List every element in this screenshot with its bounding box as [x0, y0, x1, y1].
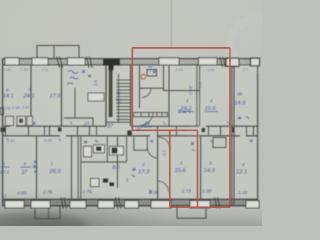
double wall lower line1 [77, 136, 79, 200]
porch right [177, 207, 206, 219]
canopy inner divider [53, 46, 55, 59]
fixtures upper-left apt box [88, 93, 104, 101]
blue ticks spine row [6, 122, 253, 143]
corridor cell left 2 [17, 116, 26, 125]
hatch ticks bottom wall 1 [61, 198, 67, 209]
paper grain noise [0, 0, 262, 226]
window bottom 6 [151, 201, 171, 208]
spine dark mark 1 [58, 128, 62, 132]
fixtures lower-mid box3 dark [112, 148, 118, 154]
red highlight bottom edge [170, 206, 230, 208]
right exterior wall [257, 59, 259, 206]
partition wall upper A [30, 65, 32, 126]
corridor spine lower line [3, 135, 258, 137]
porch left [35, 207, 60, 219]
room label upper room2 underline [205, 111, 219, 113]
red highlight polygon top edge [132, 47, 230, 49]
hatch ticks bottom wall 2 [116, 198, 122, 209]
check marks lower left [34, 161, 38, 174]
room label lower-left 0 line [1, 166, 10, 168]
corridor spine upper line [3, 125, 258, 127]
kitchen unit box lower-mid [91, 179, 100, 187]
bottom scan shadow [0, 150, 262, 226]
red highlight inner right vertical [197, 130, 199, 207]
window bottom 2 [31, 201, 50, 208]
fixtures lower-mid wc dark [96, 147, 102, 152]
corridor cross stub 1 [5, 126, 7, 136]
bathroom wall lower mid A [106, 136, 108, 162]
fixtures lower-mid tub [84, 146, 92, 157]
bathtub upper red apt [147, 70, 157, 77]
window bottom 5 [125, 201, 139, 208]
double wall upper C line2 [199, 65, 201, 126]
corridor cross stub 8 [253, 126, 255, 136]
staircase thick left wall [109, 68, 113, 117]
left side notch [0, 108, 4, 115]
canopy outline (top-left stair entrance) [37, 46, 79, 59]
fixtures right lower box [213, 138, 226, 148]
window top 1 [5, 58, 19, 65]
x marks red apt hall [178, 110, 191, 113]
kitchen squiggle 1 [67, 71, 78, 85]
vent block stub [109, 66, 114, 71]
window top 2 [32, 58, 48, 65]
watermark band [186, 70, 221, 141]
double wall upper C line1 [196, 65, 198, 126]
door arc hall red apt [140, 113, 153, 126]
kitchen squiggle 2 [82, 70, 91, 77]
spine stub extra 4 [208, 126, 210, 136]
staircase left wall [105, 65, 107, 126]
watermark arc [231, 19, 281, 69]
hall wall left apt [64, 118, 93, 126]
bathroom left wall red apt [139, 65, 141, 108]
corridor left end dark blob [1, 128, 7, 133]
corridor cross stub 7 [220, 126, 222, 136]
room1 left wall red apt [168, 65, 170, 126]
window bottom 1 [5, 201, 24, 208]
spine dark mark 3 [232, 128, 235, 133]
paper light wash [0, 0, 262, 226]
window top 6 [226, 58, 239, 66]
partition wall lower E [200, 136, 202, 200]
window top 5 [199, 58, 218, 65]
window bottom 4 [98, 201, 114, 208]
partition wall lower A [36, 136, 38, 200]
partition wall lower B [71, 136, 73, 200]
building interior lighter wash [3, 59, 257, 206]
corridor cell mark 1 [19, 119, 23, 124]
hatch ticks top wall 1 [57, 57, 63, 68]
window top 4 [159, 58, 179, 65]
corridor cell left 1 [6, 116, 14, 125]
hall wall horizontal red apt [164, 90, 200, 92]
gas stove mark 2 [110, 183, 115, 187]
closet band ticks [141, 113, 162, 117]
staircase right wall [130, 65, 132, 126]
check marks mid [33, 165, 36, 168]
porch left divider [48, 207, 50, 219]
top wall band fill [3, 59, 258, 65]
bath marks red apt [148, 67, 156, 74]
bottom-left dark blur blob [0, 213, 88, 237]
corridor cross stub 3 [49, 126, 51, 136]
hatch ticks top wall 2 [87, 57, 93, 68]
hall label 4.9 underline [144, 126, 153, 128]
marks below spine 1 [84, 140, 98, 143]
double wall lower line2 [80, 136, 82, 200]
corridor cross stub 5 [89, 126, 91, 136]
top-left corner lift [0, 0, 95, 58]
staircase landing edge [106, 121, 131, 123]
party wall line2 [233, 59, 235, 206]
bottom wall band fill [3, 199, 258, 205]
window bottom 7 [190, 201, 210, 208]
paper background [0, 0, 262, 226]
bathroom bottom wall lower mid [81, 161, 127, 163]
spine dark mark 2 [202, 128, 206, 132]
garbage chute dark box [127, 130, 132, 135]
partition wall upper B [61, 65, 63, 126]
bottom exterior wall inner line [3, 198, 258, 200]
staircase center stringer [118, 74, 120, 123]
bathroom wall lower mid B [126, 136, 128, 162]
fixtures lower-mid box3 [110, 146, 124, 155]
room label lower-left 1 line [21, 166, 32, 168]
window bottom 8 [246, 201, 259, 208]
marks lower red apt [132, 168, 152, 193]
door arc lower hall [158, 137, 170, 149]
red highlight left edge [131, 48, 133, 130]
window bottom 3 [70, 201, 86, 208]
window top 7 [251, 58, 260, 66]
window top 3 [68, 58, 86, 65]
door arc lower red room [158, 181, 169, 192]
hatch ticks bottom wall 3 [215, 198, 221, 209]
spine stub extra 3 [176, 126, 178, 136]
left exterior wall [2, 59, 4, 206]
bottom edge shade [0, 206, 262, 226]
marks right section [238, 116, 249, 119]
partition wall lower D [157, 136, 159, 200]
top margin lift [0, 0, 262, 46]
bottom exterior wall outer line [3, 205, 258, 207]
top exterior wall outer line [3, 58, 258, 60]
red highlight right edge [229, 48, 231, 207]
bathroom bottom wall red apt [140, 87, 164, 89]
top exterior wall inner line [3, 64, 258, 66]
party wall line1 [231, 59, 233, 206]
red highlight inner left vertical [169, 130, 171, 207]
x mark lower red room2 [191, 142, 195, 151]
fixtures lower-mid sink [94, 145, 105, 153]
spine stub extra 5 [246, 126, 248, 136]
partition wall lower C [117, 136, 119, 188]
staircase treads [116, 80, 130, 120]
corridor cross stub 2 [28, 126, 30, 136]
hatch ticks top wall 3 [220, 57, 226, 67]
room label red apt room1 underline [181, 111, 195, 113]
closet lower red apt [134, 136, 148, 150]
corridor cross stub 6 [157, 126, 159, 136]
bathroom right wall red apt [163, 65, 165, 91]
gas stove marks lower [103, 179, 108, 183]
paper fold line [170, 0, 172, 48]
door arc bathroom red apt [142, 88, 151, 97]
kitchen wall upper-left apt [74, 88, 76, 119]
spine stub extra 1 [44, 126, 46, 136]
corridor cell left 3 [27, 116, 33, 125]
closet band red apt hall [134, 113, 168, 117]
door arc lower hall 2 [148, 148, 158, 158]
marks upper rooms scatter 1 [116, 92, 120, 101]
water heater scribble [141, 74, 146, 79]
corridor cross stub 4 [77, 126, 79, 136]
spine stub extra 2 [96, 126, 98, 136]
vent block T [103, 59, 120, 66]
red highlight step edge [132, 129, 197, 131]
